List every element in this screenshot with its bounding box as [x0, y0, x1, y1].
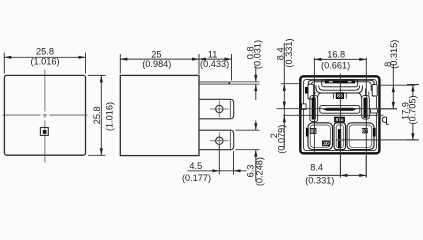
svg-text:(0.031): (0.031) — [253, 40, 263, 69]
bottom view slot centerline left (16.8 extension) — [313, 58, 315, 154]
bottom view right slot channel — [362, 96, 370, 120]
bottom view left edge bar — [306, 128, 309, 137]
bottom view central slot white break — [338, 139, 342, 140]
bottom view left slot channel — [310, 96, 318, 122]
side view upper blade hole — [216, 105, 223, 112]
dimension 4.5 line — [188, 170, 247, 172]
bottom view hat inner contour — [311, 82, 371, 95]
bottom view label 30 box — [322, 141, 330, 147]
dimension 25.8 top extension lines — [4, 53, 85, 74]
side view upper blade — [199, 99, 234, 119]
bottom view left wing channel outer — [308, 123, 333, 150]
dimension 11 arrows — [199, 58, 206, 61]
svg-text:8.4: 8.4 — [310, 162, 323, 172]
dimension 25.8 right extension lines — [88, 75, 106, 155]
bottom view slot centerline right (16.8 extension) — [365, 58, 367, 178]
svg-text:(0.079): (0.079) — [276, 125, 286, 154]
dimension 17.9 line — [407, 85, 419, 141]
dimension 6.3 arrows — [254, 123, 257, 130]
bottom view top slot white marks — [329, 81, 333, 82]
svg-text:16.8: 16.8 — [327, 49, 345, 59]
bottom view label 87a text — [336, 118, 344, 121]
bottom view top slot (terminal 86 slot) — [325, 81, 355, 84]
side view thin blade tip — [228, 82, 231, 84]
svg-text:(0.331): (0.331) — [305, 175, 334, 185]
left view small square detail — [40, 128, 48, 136]
left view small square inner fill — [43, 130, 47, 134]
svg-text:(0.331): (0.331) — [284, 38, 294, 67]
dimension 6.3 line — [255, 121, 257, 182]
svg-text:(0.433): (0.433) — [200, 59, 229, 69]
svg-text:(1.016): (1.016) — [30, 56, 59, 66]
bottom view bathtub inner wall — [319, 86, 360, 91]
dimension 4.5 arrows — [212, 169, 219, 172]
dimension 8 arrows — [392, 85, 395, 92]
svg-text:25.8: 25.8 — [92, 106, 102, 124]
bottom view right wing channel inner — [349, 125, 372, 147]
bottom view central channel inner — [336, 125, 343, 148]
bottom view label 85 box — [310, 128, 317, 134]
bottom view left notch — [302, 104, 307, 110]
side view body outline — [120, 75, 199, 155]
dimension 0.8 line — [255, 66, 257, 100]
svg-text:25.8: 25.8 — [36, 47, 54, 57]
bottom view left wing channel inner — [310, 125, 330, 147]
left view vertical centerline — [44, 70, 46, 164]
left view horizontal centerline — [3, 114, 88, 116]
dimension 25.8 right line — [100, 75, 102, 155]
side view thin blade extension to 0.8 dim — [231, 82, 260, 84]
dimension 17.9 extension line bottom — [336, 139, 415, 141]
bottom view left edge bar top — [305, 87, 308, 94]
bottom view label 30 text — [323, 142, 328, 146]
dimension 8 top-right extension lines — [380, 85, 416, 109]
dimension 8.4 bottom line — [309, 174, 367, 176]
svg-text:11: 11 — [208, 49, 218, 59]
bottom view label 86 text — [337, 94, 342, 98]
bottom view hat left connector wall — [318, 93, 321, 98]
bottom view bathtub outer wall — [316, 86, 363, 94]
bottom view right pocket — [372, 85, 377, 96]
bottom view central channel outer — [334, 123, 346, 150]
bottom view outer outline — [300, 76, 379, 153]
bottom view label 87 text — [362, 129, 367, 133]
svg-text:4.5: 4.5 — [189, 161, 202, 171]
svg-text:(0.705): (0.705) — [407, 95, 417, 124]
bottom view middle slot (terminal 30 slot) — [323, 108, 357, 111]
dimension 8.4 bottom arrows — [340, 174, 347, 177]
bottom view vertical centerline — [339, 74, 341, 178]
side view thin top blade — [199, 82, 231, 84]
svg-text:(0.177): (0.177) — [182, 173, 211, 183]
dimension 8.4 bottom extension lines — [340, 156, 366, 178]
dimension 6.3 extension lines — [236, 130, 260, 150]
svg-text:(0.984): (0.984) — [142, 59, 171, 69]
bottom view horizontal centerline — [283, 114, 384, 116]
dimension 8 line — [392, 64, 394, 109]
dimension 25 arrows — [120, 58, 127, 61]
bottom view slot row line — [277, 108, 398, 110]
svg-text:(0.661): (0.661) — [321, 61, 350, 71]
left view outline — [4, 75, 85, 155]
dimension 16.8 arrows — [314, 58, 321, 61]
centreline symbol — [382, 117, 387, 122]
side view lower blade hole — [216, 137, 223, 144]
dimension 25.8 top arrows — [4, 56, 11, 59]
side view lower blade bend line — [229, 131, 231, 148]
side view lower blade — [199, 130, 234, 150]
dimension 25.8 top line — [4, 56, 85, 58]
bottom view label 85 text — [310, 129, 315, 133]
dimension 8.4 top-left line (shared with dimension 2) — [283, 43, 285, 149]
bottom view right edge bar — [373, 128, 376, 137]
dimension 8.4 top-left arrows — [283, 84, 286, 91]
bottom view slot ring — [322, 80, 358, 87]
side view upper blade bend line — [229, 101, 231, 118]
bottom view right wing channel outer — [347, 123, 374, 150]
svg-text:(1.016): (1.016) — [105, 102, 115, 131]
bottom view left slot — [312, 98, 316, 120]
bottom view label 87 box — [362, 128, 368, 133]
side view upper blade hole crosshairs — [210, 101, 229, 118]
bottom view right slot — [364, 98, 368, 118]
bottom view left pocket — [308, 84, 314, 99]
svg-text:(0.315): (0.315) — [389, 40, 399, 69]
dimension 25.8 right arrows — [100, 75, 103, 82]
bottom view label 87a box — [334, 117, 345, 123]
bottom view right notch — [371, 109, 378, 113]
bottom view middle slot channel — [320, 106, 360, 114]
bottom view 86 box flank walls — [334, 93, 347, 99]
dimension 4.5 extension lines — [219, 146, 233, 175]
dimension 17.9 arrows — [411, 85, 414, 92]
dimension 25 and 11 extension lines — [120, 54, 231, 81]
svg-text:25: 25 — [151, 49, 161, 59]
dimension 25 line — [120, 58, 231, 60]
bottom view central slot (terminal 87 slot) — [338, 129, 341, 148]
side view lower blade hole crosshairs — [210, 132, 229, 145]
bottom view inner molding line — [304, 80, 377, 151]
bottom view hat outer contour — [308, 80, 374, 99]
dimension 2 arrow — [283, 115, 286, 122]
dimension 8.4 top-left extension line — [281, 83, 301, 85]
dimension 16.8 line — [314, 58, 366, 60]
svg-text:(0.248): (0.248) — [254, 157, 264, 186]
bottom view hat right connector wall — [358, 93, 361, 98]
dimension 0.8 arrows — [254, 75, 257, 82]
bottom view label 86 box — [336, 92, 344, 99]
